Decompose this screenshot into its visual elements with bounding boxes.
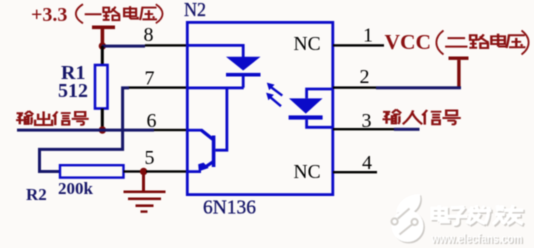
power bar +3.3 xyxy=(92,26,115,46)
wire R2 to node C xyxy=(124,170,144,172)
op-amp, IC body 6N136 xyxy=(187,22,332,194)
wire pin3 input net xyxy=(394,128,420,131)
wire R1 to node B xyxy=(101,109,104,129)
internal wire pin7 line xyxy=(188,87,244,90)
svg-text:1: 1 xyxy=(363,24,373,46)
svg-text:200k: 200k xyxy=(58,179,94,198)
svg-text:www.elecfans.com: www.elecfans.com xyxy=(431,231,523,246)
wire pin2 to VCC xyxy=(376,86,461,89)
ground xyxy=(124,174,166,213)
svg-text:4: 4 xyxy=(362,152,372,174)
pin 5 stub xyxy=(146,170,187,172)
pin 3 stub xyxy=(333,128,394,130)
svg-text:2: 2 xyxy=(360,66,370,88)
svg-text:512: 512 xyxy=(58,80,88,102)
wire net A to pin 8 xyxy=(102,45,145,48)
light arrow 2 xyxy=(266,93,281,107)
wire node A to R1 xyxy=(101,46,104,66)
net label +3.3 (一路电压) xyxy=(31,4,67,26)
wire LED cathode to pin7 line xyxy=(242,77,245,88)
wire photodiode anode to pin2 xyxy=(307,89,332,127)
pin 2 stub xyxy=(333,86,376,88)
svg-text:R2: R2 xyxy=(26,185,47,204)
svg-text:+3.3: +3.3 xyxy=(31,4,67,26)
resistor R1 xyxy=(95,65,108,109)
svg-text:5: 5 xyxy=(145,147,155,169)
internal wire pin5 to emitter xyxy=(188,170,201,173)
node B junction dot xyxy=(99,126,106,133)
node C junction dot xyxy=(140,168,147,175)
power bar VCC xyxy=(449,57,469,87)
node A junction dot xyxy=(99,42,106,49)
pin 6 stub xyxy=(154,129,187,131)
internal wire pin8 to LED anode xyxy=(188,45,243,57)
svg-text:NC: NC xyxy=(294,34,321,55)
transistor emitter arrowhead xyxy=(198,163,208,172)
pin 8 stub xyxy=(145,44,187,46)
pin 4 stub xyxy=(333,171,377,173)
photodiode D2 xyxy=(289,98,323,119)
light arrow 1 xyxy=(267,83,283,96)
svg-text:8: 8 xyxy=(144,24,154,46)
svg-text:7: 7 xyxy=(145,67,155,89)
svg-text:VCC: VCC xyxy=(385,30,432,54)
svg-text:6: 6 xyxy=(147,110,157,132)
net label 输出信号 (output signal) xyxy=(16,111,89,125)
pin 7 stub xyxy=(128,86,187,88)
svg-text:6N136: 6N136 xyxy=(203,196,256,218)
LED D1 (emitter) xyxy=(226,57,261,77)
watermark text 电子发烧友 xyxy=(434,207,525,226)
svg-text:3: 3 xyxy=(362,110,372,132)
svg-text:NC: NC xyxy=(294,162,321,183)
watermark logo xyxy=(392,195,424,242)
pin 1 stub xyxy=(333,44,384,46)
wire pin7 line down to base xyxy=(216,89,227,150)
net label 输入信号 (input signal) xyxy=(383,109,461,124)
wire output net to pin 6 xyxy=(17,129,154,132)
internal wire pin6 to collector xyxy=(188,129,203,132)
svg-text:N2: N2 xyxy=(184,0,206,21)
transistor Q1 xyxy=(202,130,216,168)
wire pin7 elbow down xyxy=(40,88,130,172)
resistor R2 xyxy=(60,165,124,177)
